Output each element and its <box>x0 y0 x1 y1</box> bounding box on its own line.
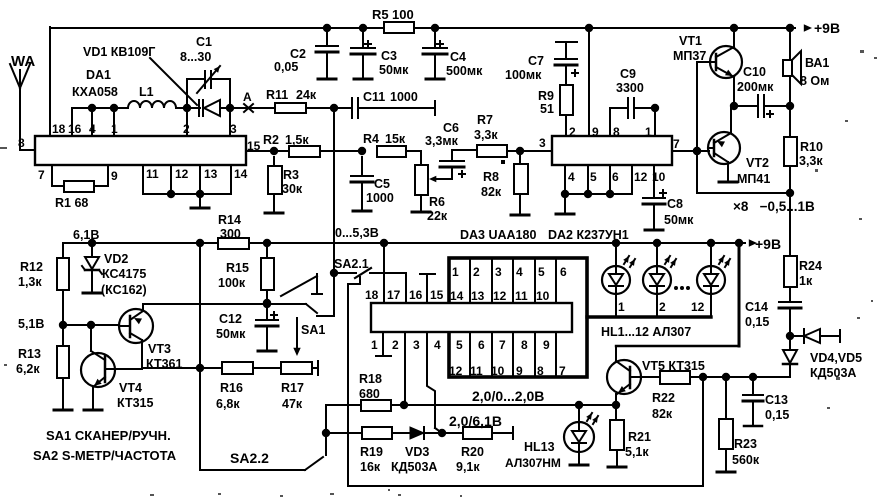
svg-text:VT3: VT3 <box>148 342 171 356</box>
svg-text:R10: R10 <box>800 140 823 154</box>
svg-text:9: 9 <box>516 364 523 378</box>
svg-text:9: 9 <box>111 169 118 183</box>
svg-text:4: 4 <box>568 170 575 184</box>
svg-text:WA: WA <box>11 53 35 70</box>
svg-text:100к: 100к <box>218 276 246 290</box>
svg-text:51: 51 <box>540 102 554 116</box>
svg-text:R22: R22 <box>652 391 675 405</box>
svg-text:МП37: МП37 <box>673 49 706 63</box>
svg-text:3,3к: 3,3к <box>474 128 498 142</box>
svg-text:18: 18 <box>52 122 66 136</box>
svg-text:SA2.2: SA2.2 <box>230 450 269 466</box>
svg-text:5: 5 <box>590 170 597 184</box>
svg-text:C3: C3 <box>381 49 397 63</box>
svg-text:82к: 82к <box>481 185 502 199</box>
svg-text:R18: R18 <box>359 372 382 386</box>
svg-text:6: 6 <box>612 170 619 184</box>
svg-text:C1: C1 <box>196 35 212 49</box>
svg-text:2,0/6,1В: 2,0/6,1В <box>449 413 502 429</box>
svg-text:R8: R8 <box>483 170 499 184</box>
svg-text:11: 11 <box>515 289 528 303</box>
svg-text:3: 3 <box>230 122 237 136</box>
svg-text:12: 12 <box>449 364 463 378</box>
svg-text:4: 4 <box>516 265 523 279</box>
svg-text:R9: R9 <box>538 89 554 103</box>
svg-text:3: 3 <box>413 338 420 352</box>
svg-text:12: 12 <box>691 300 705 314</box>
svg-text:8...30: 8...30 <box>180 50 211 64</box>
svg-text:7: 7 <box>673 137 680 151</box>
svg-text:2: 2 <box>392 338 399 352</box>
svg-text:1000: 1000 <box>366 191 394 205</box>
svg-text:SA2 S-МЕТР/ЧАСТОТА: SA2 S-МЕТР/ЧАСТОТА <box>33 448 177 463</box>
svg-text:R5: R5 <box>372 7 389 22</box>
svg-text:КТ361: КТ361 <box>146 357 182 371</box>
svg-text:R16: R16 <box>220 381 243 395</box>
svg-text:5,1В: 5,1В <box>18 317 44 331</box>
svg-text:10: 10 <box>536 289 550 303</box>
svg-text:8: 8 <box>537 364 544 378</box>
svg-text:C9: C9 <box>620 67 636 81</box>
svg-text:КД503А: КД503А <box>810 366 856 380</box>
svg-text:680: 680 <box>359 387 380 401</box>
svg-text:14: 14 <box>450 289 464 303</box>
svg-text:R3: R3 <box>283 168 299 182</box>
svg-text:C6: C6 <box>443 121 459 135</box>
svg-text:VD3: VD3 <box>405 445 429 459</box>
svg-text:R11: R11 <box>266 88 288 102</box>
svg-text:16к: 16к <box>360 460 381 474</box>
svg-text:VT4: VT4 <box>119 381 142 395</box>
svg-text:100: 100 <box>392 7 414 22</box>
svg-text:9: 9 <box>592 125 599 139</box>
svg-text:R12: R12 <box>20 260 43 274</box>
svg-text:R4: R4 <box>363 132 379 146</box>
svg-text:7: 7 <box>559 364 566 378</box>
svg-text:47к: 47к <box>282 397 303 411</box>
svg-text:2: 2 <box>659 300 666 314</box>
svg-text:HL13: HL13 <box>524 440 555 454</box>
svg-text:3,3к: 3,3к <box>799 154 823 168</box>
svg-text:3: 3 <box>539 136 546 150</box>
svg-text:А: А <box>243 90 252 104</box>
svg-text:8 Ом: 8 Ом <box>800 74 829 88</box>
svg-text:8: 8 <box>18 136 25 150</box>
svg-text:R1 68: R1 68 <box>55 196 88 210</box>
svg-text:МП41: МП41 <box>737 172 770 186</box>
svg-text:50мк: 50мк <box>379 63 409 77</box>
svg-text:22к: 22к <box>427 209 448 223</box>
svg-text:13: 13 <box>471 289 485 303</box>
svg-text:7: 7 <box>499 338 506 352</box>
svg-text:6,8к: 6,8к <box>216 397 240 411</box>
svg-text:R23: R23 <box>734 437 757 451</box>
svg-text:6: 6 <box>478 338 485 352</box>
svg-text:15к: 15к <box>385 132 406 146</box>
svg-text:12: 12 <box>634 170 648 184</box>
svg-text:16: 16 <box>68 122 82 136</box>
svg-text:(КС162): (КС162) <box>101 283 147 297</box>
svg-text:КС4175: КС4175 <box>102 267 146 281</box>
svg-text:9,1к: 9,1к <box>456 460 480 474</box>
svg-text:C11: C11 <box>363 90 385 104</box>
svg-text:R13: R13 <box>18 347 41 361</box>
svg-text:82к: 82к <box>652 407 673 421</box>
svg-text:30к: 30к <box>282 182 303 196</box>
svg-text:1: 1 <box>645 125 652 139</box>
svg-text:300: 300 <box>220 227 241 241</box>
svg-text:11: 11 <box>470 364 483 378</box>
svg-text:12: 12 <box>175 167 189 181</box>
svg-text:16: 16 <box>409 288 423 302</box>
svg-text:6: 6 <box>560 265 567 279</box>
svg-text:×8 −0,5...1В: ×8 −0,5...1В <box>733 199 815 214</box>
svg-text:DA3 UAA180: DA3 UAA180 <box>460 228 536 242</box>
svg-text:R20: R20 <box>461 445 484 459</box>
svg-text:6,2к: 6,2к <box>16 362 40 376</box>
svg-text:R21: R21 <box>628 430 651 444</box>
svg-text:5: 5 <box>538 265 545 279</box>
svg-text:13: 13 <box>204 167 218 181</box>
svg-text:8: 8 <box>521 338 528 352</box>
svg-text:3300: 3300 <box>616 81 644 95</box>
svg-text:R19: R19 <box>360 445 383 459</box>
svg-text:560к: 560к <box>732 453 760 467</box>
svg-text:1000: 1000 <box>390 90 418 104</box>
svg-text:R2: R2 <box>263 133 279 147</box>
svg-text:3: 3 <box>495 265 502 279</box>
svg-text:R7: R7 <box>477 113 493 127</box>
svg-text:1: 1 <box>452 265 459 279</box>
svg-text:R15: R15 <box>226 261 249 275</box>
svg-text:0,15: 0,15 <box>765 408 789 422</box>
svg-text:R17: R17 <box>281 381 304 395</box>
svg-text:C4: C4 <box>450 50 466 64</box>
svg-text:+9В: +9В <box>755 236 781 252</box>
svg-text:C10: C10 <box>743 65 766 79</box>
svg-text:L1: L1 <box>139 85 154 99</box>
svg-text:АЛ307НМ: АЛ307НМ <box>505 456 561 470</box>
svg-text:1к: 1к <box>799 274 813 288</box>
svg-text:10: 10 <box>491 364 505 378</box>
svg-text:4: 4 <box>434 338 441 352</box>
svg-text:17: 17 <box>387 288 401 302</box>
svg-text:R24: R24 <box>799 259 822 273</box>
svg-text:7: 7 <box>38 168 45 182</box>
svg-text:КХА058: КХА058 <box>72 85 118 99</box>
svg-text:C2: C2 <box>290 47 306 61</box>
svg-text:2,0/0...2,0В: 2,0/0...2,0В <box>472 388 544 404</box>
svg-text:VT1: VT1 <box>679 34 702 48</box>
svg-text:КТ315: КТ315 <box>117 396 153 410</box>
svg-text:SA2.1: SA2.1 <box>334 257 369 271</box>
svg-text:R6: R6 <box>429 195 445 209</box>
svg-text:VD4,VD5: VD4,VD5 <box>810 351 862 365</box>
svg-text:+9В: +9В <box>814 20 840 36</box>
svg-text:VT2: VT2 <box>746 156 769 170</box>
svg-text:5: 5 <box>456 338 463 352</box>
svg-text:1: 1 <box>371 338 378 352</box>
svg-text:C5: C5 <box>374 177 390 191</box>
svg-text:VD1 КВ109Г: VD1 КВ109Г <box>83 45 155 59</box>
svg-text:15: 15 <box>430 288 444 302</box>
svg-text:500мк: 500мк <box>446 64 483 78</box>
svg-text:14: 14 <box>234 167 248 181</box>
svg-text:C7: C7 <box>528 54 544 68</box>
svg-text:50мк: 50мк <box>664 213 694 227</box>
svg-text:HL1...12 АЛ307: HL1...12 АЛ307 <box>601 325 691 339</box>
svg-text:1,3к: 1,3к <box>18 275 42 289</box>
svg-text:С14: С14 <box>745 300 768 314</box>
svg-text:24к: 24к <box>296 88 317 102</box>
svg-text:0,05: 0,05 <box>274 60 298 74</box>
svg-text:100мк: 100мк <box>505 68 542 82</box>
svg-text:11: 11 <box>146 167 159 181</box>
svg-text:C12: C12 <box>219 312 242 326</box>
svg-text:6,1В: 6,1В <box>73 228 99 242</box>
svg-text:12: 12 <box>493 289 507 303</box>
svg-text:0...5,3В: 0...5,3В <box>335 226 379 240</box>
svg-text:2: 2 <box>569 125 576 139</box>
svg-text:5,1к: 5,1к <box>625 445 649 459</box>
svg-text:ВА1: ВА1 <box>805 56 829 70</box>
svg-text:R14: R14 <box>218 213 241 227</box>
svg-text:3,3мк: 3,3мк <box>425 134 459 148</box>
svg-text:9: 9 <box>543 338 550 352</box>
svg-text:1: 1 <box>618 300 625 314</box>
svg-text:SA1: SA1 <box>301 323 325 337</box>
svg-text:50мк: 50мк <box>216 327 246 341</box>
svg-text:8: 8 <box>613 125 620 139</box>
svg-text:200мк: 200мк <box>737 80 774 94</box>
svg-text:С13: С13 <box>765 393 788 407</box>
svg-text:0,15: 0,15 <box>745 315 769 329</box>
svg-text:18: 18 <box>365 288 379 302</box>
svg-text:КД503А: КД503А <box>391 460 437 474</box>
svg-text:2: 2 <box>473 265 480 279</box>
svg-text:VD2: VD2 <box>104 252 128 266</box>
svg-text:DA1: DA1 <box>86 68 111 82</box>
svg-text:С8: С8 <box>667 197 683 211</box>
svg-text:1,5к: 1,5к <box>285 133 309 147</box>
svg-text:SA1 СКАНЕР/РУЧН.: SA1 СКАНЕР/РУЧН. <box>46 428 171 443</box>
